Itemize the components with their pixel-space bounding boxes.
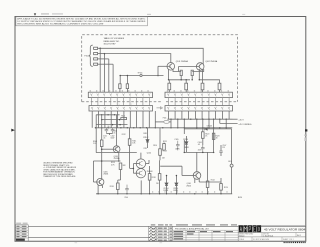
approval table cells (174, 231, 233, 239)
svg-text:2N1008: 2N1008 (147, 171, 153, 173)
wire (118, 179, 121, 181)
wire (159, 180, 161, 194)
svg-text:C104: C104 (113, 131, 117, 133)
wire (175, 185, 177, 193)
wire pin2 to Q101 collector (105, 54, 171, 63)
wire CR103 row (184, 128, 204, 130)
resistor R120 (202, 132, 205, 139)
svg-text:R114: R114 (153, 145, 157, 147)
wire bus D (96, 124, 127, 126)
wire (281, 237, 283, 241)
wire (220, 178, 222, 184)
resistor R118 (148, 174, 151, 181)
wire bottom rail (96, 193, 232, 195)
terminal strip TB102 left (89, 106, 153, 111)
wire (159, 128, 161, 149)
svg-text:MODEL FIRST USED: MODEL FIRST USED (239, 234, 253, 236)
resistor R104 (191, 70, 193, 75)
bottom border fold marks (75, 242, 78, 243)
wire (155, 121, 164, 123)
resistor R108 (218, 83, 221, 90)
wire (168, 90, 170, 92)
wire (185, 144, 187, 152)
svg-text:Q106: Q106 (187, 183, 191, 185)
svg-text:1N91: 1N91 (143, 133, 147, 135)
wire (166, 185, 168, 193)
svg-text:30: 30 (108, 126, 110, 128)
wire (119, 76, 121, 84)
svg-text:C104: C104 (124, 197, 128, 199)
resistor R101 (119, 84, 121, 89)
svg-text:SH 1: SH 1 (297, 235, 301, 237)
wire pin 1 drop (99, 48, 101, 92)
connector pin 3 (94, 58, 98, 60)
terminal strip TB101 left (88, 92, 152, 97)
wire (130, 167, 134, 169)
wire (213, 128, 215, 153)
wire (98, 53, 105, 55)
wire (98, 47, 101, 49)
revision table left (16, 225, 29, 242)
wire (101, 115, 103, 120)
wire (98, 63, 114, 65)
wire (220, 190, 222, 194)
wire Q103 emitter (118, 152, 120, 161)
wire (149, 180, 151, 194)
wire (202, 90, 204, 92)
wire (147, 142, 149, 148)
wires TB101 to TB102 (92, 98, 230, 106)
wires TB102 drops right (168, 111, 229, 119)
resistor R110 horizontal (121, 118, 127, 120)
wire Q105 base (93, 181, 97, 183)
wire pin1 to Q102 collector (100, 48, 203, 64)
wire (185, 90, 187, 92)
svg-text:CR106: CR106 (183, 139, 188, 141)
diode CR105 (175, 183, 178, 185)
svg-text:TP101: TP101 (138, 72, 143, 74)
wire rail x96 (95, 115, 97, 153)
resistor R103 (180, 70, 182, 75)
svg-text:TABLE OF VOLTAGES: TABLE OF VOLTAGES (104, 37, 125, 40)
svg-text:Q105: Q105 (103, 171, 107, 173)
wire (185, 80, 187, 83)
wire mid bus with test point (120, 75, 163, 77)
capacitor C107 (219, 151, 223, 152)
wire (117, 180, 119, 183)
svg-text:TRANSISTOR TYPE 2N301 REPLACE.: TRANSISTOR TYPE 2N301 REPLACE. (43, 175, 76, 178)
svg-text:.05: .05 (198, 144, 200, 146)
wire (251, 237, 253, 241)
wire (220, 145, 222, 151)
wire bus A left (96, 114, 119, 116)
svg-text:CR105: CR105 (173, 188, 178, 190)
svg-text:2N586: 2N586 (103, 173, 108, 175)
connector pin 4 (94, 63, 98, 65)
wire Q103 base (102, 148, 114, 150)
svg-text:R121: R121 (163, 141, 167, 143)
capacitor C102 (111, 128, 115, 134)
svg-text:CR103: CR103 (207, 125, 212, 127)
wire (207, 188, 209, 194)
svg-text:CR104: CR104 (163, 188, 168, 190)
svg-text:R117: R117 (144, 148, 148, 150)
wire Q104 emitter out (146, 163, 149, 165)
svg-text:R120: R120 (205, 134, 209, 136)
wire (166, 176, 168, 184)
resistor R111 (128, 139, 131, 146)
wire (117, 190, 119, 194)
diode CR103 (205, 127, 208, 130)
wire (98, 58, 109, 60)
capacitor C101 (105, 128, 109, 134)
company logo blocks (239, 226, 261, 233)
wire (126, 89, 128, 93)
wire (140, 153, 142, 159)
wire +45V output stub (233, 118, 238, 120)
svg-text:45 VOLT REGULATOR 0804: 45 VOLT REGULATOR 0804 (264, 228, 306, 232)
title block right section top line (238, 224, 306, 226)
svg-text:F101: F101 (163, 117, 167, 119)
connector pin 2 (94, 53, 98, 55)
capacitor C104 (125, 185, 129, 194)
svg-text:+45 V UNREG: +45 V UNREG (238, 124, 252, 126)
wire rail stub (140, 180, 142, 193)
svg-text:Q101 2N456A: Q101 2N456A (176, 60, 189, 63)
wire (237, 225, 239, 241)
svg-text:Q102 2N456A: Q102 2N456A (205, 60, 218, 63)
svg-text:300-1D: 300-1D (239, 235, 245, 237)
wire mid row y152.5 (96, 152, 137, 154)
wire right drops to bus C (171, 119, 226, 128)
wire Q104 bases (133, 163, 139, 165)
svg-text:C101: C101 (103, 135, 107, 137)
svg-text:R110: R110 (121, 115, 125, 117)
svg-text:C107: C107 (222, 145, 226, 147)
wire (154, 111, 156, 128)
wire pin 4 drop (112, 64, 114, 92)
wire bus C (95, 127, 232, 129)
svg-text:125: 125 (222, 147, 225, 149)
transistor Q102 (196, 63, 204, 71)
title block lines (238, 232, 306, 234)
wire rail x101 (101, 120, 103, 140)
wire caps common (106, 132, 112, 134)
ruler dashes below border (284, 242, 306, 243)
resistor R105 (168, 83, 171, 90)
svg-text:P101: P101 (84, 56, 88, 58)
fuse F101 (164, 121, 169, 124)
resistor R113 (159, 149, 162, 156)
wire (175, 176, 177, 184)
svg-text:Q104: Q104 (147, 152, 151, 154)
wire (116, 115, 118, 146)
wire unreg output stub (220, 122, 238, 124)
wire Q105 emitter (97, 185, 99, 194)
wire (120, 170, 122, 181)
diode CR104 (165, 183, 168, 185)
transistor Q101 (167, 63, 175, 71)
transistor Q103 (113, 146, 120, 153)
diode CR102 (146, 140, 149, 142)
wire Q102 base stub (179, 66, 197, 68)
terminal ticks on rail (152, 191, 228, 192)
svg-text:PANEL ASSY NO: PANEL ASSY NO (104, 40, 120, 43)
wire (159, 155, 161, 160)
top border faint revision marks (41, 13, 49, 14)
wire (185, 136, 187, 142)
svg-text:R112: R112 (122, 134, 126, 136)
svg-text:C102: C102 (111, 135, 115, 137)
wire (202, 138, 204, 145)
wire (129, 128, 131, 139)
wire (159, 160, 161, 173)
wire (207, 152, 209, 181)
left border centering arrow (11, 129, 15, 132)
wire (202, 69, 204, 83)
transistor Q105 (97, 178, 104, 185)
wire (169, 121, 171, 123)
wire (199, 181, 221, 183)
header text above signature row (151, 224, 172, 225)
wire (101, 147, 103, 176)
wire (168, 80, 170, 83)
wire (126, 76, 128, 84)
wire (183, 128, 185, 134)
svg-text:.05: .05 (103, 137, 105, 139)
general notes box (16, 17, 148, 26)
wire (261, 233, 263, 237)
wire (172, 226, 174, 241)
svg-text:Q103: Q103 (114, 156, 118, 158)
resistor R124 (220, 184, 223, 191)
wires TB102 drops left (92, 111, 149, 128)
revision strip lines (28, 225, 306, 227)
wire Q102 emitter drop (192, 69, 219, 83)
connector P101 brace (89, 45, 93, 66)
top border tick mark (34, 13, 36, 15)
test point TP101 (140, 74, 142, 76)
signature block (147, 226, 149, 241)
resistor R123 (212, 133, 215, 139)
svg-text:R118: R118 (152, 177, 156, 179)
wire Q101 base stub (158, 65, 167, 67)
terminal strip TB102 right (165, 106, 233, 111)
svg-text:.05: .05 (113, 133, 115, 135)
resistor R106 (185, 83, 188, 90)
svg-text:SHEET 1 OF 1: SHEET 1 OF 1 (283, 239, 294, 241)
svg-text:250: 250 (156, 183, 159, 185)
wire Q101 emitter drop (169, 69, 190, 80)
wire (202, 129, 204, 132)
svg-text:C 302-870-01: C 302-870-01 (263, 235, 273, 237)
svg-text:1N538: 1N538 (163, 190, 168, 192)
wire bus B (102, 119, 120, 121)
wire (168, 226, 170, 241)
wire bus A dots (101, 114, 115, 115)
svg-text:R123: R123 (216, 135, 220, 137)
wire pin 3 drop (108, 59, 110, 92)
resistor R119 (158, 174, 161, 181)
notes text lines (17, 18, 146, 26)
svg-text:RECORDERS SEE ALSO SCHEMATIC: RECORDERS SEE ALSO SCHEMATIC CURRENT DWG… (17, 22, 103, 25)
wire (219, 119, 221, 123)
terminal numbers above TB101 (90, 90, 229, 91)
wire bus R right (167, 118, 232, 120)
resistor R122 (206, 181, 209, 188)
resistor R121 (163, 144, 166, 151)
svg-text:PROCESSED & BOND APPROVAL LIST: PROCESSED & BOND APPROVAL LIST (175, 227, 210, 230)
svg-text:1N438: 1N438 (184, 147, 189, 149)
revision table entries (16, 226, 26, 238)
link symbol between TB102 halves (157, 107, 163, 110)
wire (129, 145, 131, 152)
signatures scribbles (149, 228, 156, 241)
svg-text:R116: R116 (110, 186, 114, 188)
wire (149, 166, 151, 174)
wire (295, 233, 297, 237)
svg-text:R124: R124 (224, 187, 228, 189)
svg-text:300-871 REV: 300-871 REV (104, 43, 117, 45)
wire Q106 base (182, 175, 193, 177)
wire (101, 175, 103, 178)
terminal strip TB101 right (165, 92, 233, 97)
connector pin 1 (94, 47, 98, 49)
wire (183, 140, 185, 152)
wire (180, 76, 182, 80)
resistor R102 (126, 84, 128, 89)
capacitor C105 (176, 141, 180, 151)
wire (191, 76, 193, 80)
svg-text:R122: R122 (211, 180, 215, 182)
resistor R109 (100, 140, 103, 147)
wire (196, 152, 198, 171)
wire (119, 89, 121, 93)
test point jack J101 (231, 129, 233, 164)
resistor R107 (201, 83, 204, 90)
transistor Q106 (193, 172, 201, 180)
transistor Q104 dual (136, 159, 145, 178)
wire (20, 225, 22, 242)
wire pin 2 drop (104, 54, 106, 93)
revision header above (16, 223, 27, 224)
svg-text:R113: R113 (163, 150, 167, 152)
header text above table (176, 224, 237, 225)
top border faint tick right (242, 14, 245, 15)
wire (156, 226, 158, 241)
wire (219, 90, 221, 92)
svg-text:C105: C105 (174, 139, 178, 141)
svg-text:2N301: 2N301 (186, 185, 191, 187)
wire (220, 152, 222, 156)
wire (147, 128, 149, 140)
wire (129, 152, 131, 168)
wire bus C dots (95, 127, 227, 128)
right border zone mark (305, 129, 307, 131)
diode CR106 zener (185, 142, 188, 144)
svg-text:J101: J101 (228, 161, 232, 163)
svg-text:+45 V: +45 V (238, 119, 244, 121)
chassis dashed boundary (82, 35, 238, 102)
wire Q106 emitter (194, 179, 196, 183)
